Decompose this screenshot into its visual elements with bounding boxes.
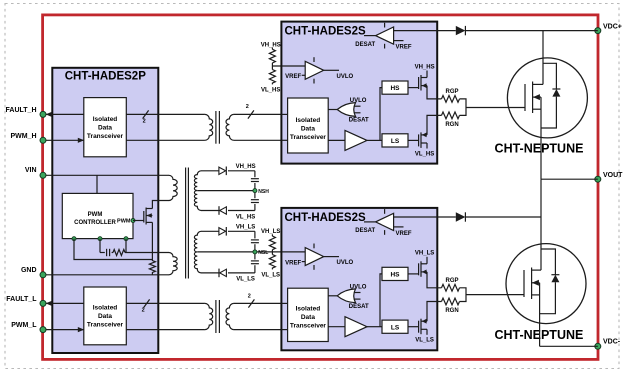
wire VH_HS down to C2: [254, 171, 256, 177]
M2 channel: [531, 268, 533, 300]
svg-text:Data: Data: [301, 126, 315, 133]
T3 primary winding W1: [169, 175, 177, 200]
buffer A2 (gate drive): [345, 317, 367, 337]
svg-text:Data: Data: [301, 314, 315, 321]
svg-text:Transceiver: Transceiver: [290, 134, 327, 141]
svg-text:NSH: NSH: [258, 189, 269, 195]
secondary-side driver IC CHT-HADES2S (low side): [281, 208, 437, 350]
wire NSL tap into block: [281, 251, 305, 253]
svg-text:VREF: VREF: [285, 74, 301, 80]
wire HS to Q4 gate: [408, 273, 419, 275]
svg-text:RGP: RGP: [445, 278, 458, 284]
wire channel lower into block: [281, 139, 287, 141]
wire UVLO output: [324, 69, 339, 71]
wire D6 to VDC+ rail: [465, 30, 597, 32]
node PWM controller pin B: [98, 237, 102, 241]
wire C5 to VL_LS rail: [254, 265, 256, 273]
transformer T1 core: [215, 111, 217, 144]
T3 secondary winding W3 (high side, center tapped): [194, 171, 201, 211]
diode D5 (body): [552, 89, 560, 97]
wire M2 drain to VOUT rail: [540, 179, 542, 270]
transistor Q5 (VL_LS pull-down): [418, 321, 420, 333]
M2 body diode branch: [541, 249, 555, 275]
svg-text:VREF: VREF: [396, 231, 412, 237]
svg-text:UVLO: UVLO: [337, 74, 354, 80]
svg-text:2: 2: [248, 294, 251, 300]
resistor R3: [269, 70, 275, 84]
wire LS to Q3 gate: [408, 139, 419, 141]
signal transformer T2 secondary: [226, 303, 234, 329]
diode D8: [456, 212, 466, 221]
wire channel upper into block: [281, 113, 287, 115]
arrow FAULT_H out: [46, 112, 52, 117]
wire HS to Q2 gate: [408, 87, 419, 89]
wire G2 output to transceiver: [328, 295, 337, 297]
M1 channel: [532, 82, 534, 114]
node VOUT: [595, 176, 601, 182]
wire T1 to transceiver U4 (upper): [234, 113, 288, 115]
bus slash 2 (right of T2): [248, 299, 254, 307]
wire VIN to PWM controller: [96, 175, 98, 193]
M2 source stub: [532, 294, 540, 296]
svg-text:2: 2: [246, 104, 249, 110]
wire Q4 drain to VH_LS: [426, 257, 428, 264]
wire G2 input DESAT: [355, 298, 361, 300]
wire G1 input DESAT: [355, 112, 361, 114]
comparator U7 (UVLO): [305, 61, 324, 79]
diode D3: [219, 228, 226, 235]
node PWM controller pin A: [72, 237, 76, 241]
wire gate feed to M2: [466, 294, 524, 296]
resistor RGN: [442, 112, 460, 119]
T3 secondary winding W4 (low side, center tapped): [194, 231, 201, 273]
wire W4 bottom to diode D4: [201, 272, 219, 274]
wire UVLO output: [324, 256, 339, 258]
comparator U8 (DESAT): [376, 213, 394, 230]
svg-text:UVLO: UVLO: [350, 98, 367, 104]
wire VDC- rail: [540, 345, 598, 347]
wire A2 output node: [367, 326, 382, 328]
wire T1 to transceiver U4 (lower): [234, 139, 288, 141]
svg-text:VH_HS: VH_HS: [236, 164, 256, 170]
capacitor C5: [251, 260, 259, 262]
svg-text:FAULT_L: FAULT_L: [6, 296, 37, 303]
wire Q2 drain to VH_HS: [426, 71, 428, 78]
transistor Q1 (switch): [143, 211, 145, 223]
svg-text:UVLO: UVLO: [350, 285, 367, 291]
svg-text:NSL: NSL: [258, 250, 268, 256]
svg-text:Data: Data: [98, 125, 112, 132]
arrow FAULT_L out: [46, 301, 52, 306]
svg-text:VH_LS: VH_LS: [236, 225, 255, 231]
svg-text:VDC+: VDC+: [603, 24, 622, 31]
svg-text:HS: HS: [390, 272, 400, 279]
svg-text:CHT-HADES2P: CHT-HADES2P: [65, 71, 146, 83]
svg-text:Isolated: Isolated: [93, 305, 118, 312]
svg-text:VH_LS: VH_LS: [261, 229, 280, 235]
svg-text:HS: HS: [390, 85, 400, 92]
wire transceiver U2 to transformer T2 (upper): [126, 302, 205, 304]
svg-text:DESAT: DESAT: [355, 42, 375, 48]
wire to HS input: [380, 88, 382, 141]
wire T2 to transceiver U5 (lower): [234, 329, 288, 331]
wire VOUT rail: [541, 178, 598, 180]
wire T2 to transceiver U5 (upper): [234, 302, 288, 304]
node PWM_H: [40, 137, 46, 143]
diode D1: [219, 167, 226, 174]
wire C3 to VL_HS rail: [254, 204, 256, 211]
svg-text:VREF: VREF: [396, 45, 412, 51]
wire GND rail: [46, 274, 169, 276]
HS driver box: [382, 81, 408, 94]
primary-side driver IC CHT-HADES2P: [52, 68, 158, 353]
wire D4 to VL_LS rail: [228, 272, 255, 274]
wire VH_LS down to C4: [254, 231, 256, 238]
wire Q1 source to sense resistor: [151, 222, 153, 259]
diode D6: [456, 26, 466, 35]
T3 core: [185, 168, 187, 279]
svg-text:CHT-NEPTUNE: CHT-NEPTUNE: [494, 328, 583, 342]
wire DESAT output stub: [364, 221, 376, 223]
comparator U6 (DESAT): [376, 27, 394, 44]
wire W3 bottom to diode D2: [201, 210, 219, 212]
svg-text:VL_LS: VL_LS: [415, 338, 434, 344]
wire A1 output node: [367, 139, 382, 141]
wire VREF stub (DESAT comparator): [394, 40, 404, 42]
resistor R2: [271, 48, 273, 50]
secondary-side driver IC CHT-HADES2S (high side): [281, 22, 437, 164]
wire VREF stub (UVLO comparator): [302, 261, 306, 263]
wire G1 output to transceiver: [328, 109, 337, 111]
capacitor C3: [251, 199, 259, 201]
wire PWM_L: [46, 329, 84, 331]
wire pin A to sense node: [74, 239, 152, 260]
wire HADES2S to D6: [437, 30, 456, 32]
svg-text:VL_HS: VL_HS: [415, 151, 434, 157]
wire Q5 source to VL_LS: [426, 329, 428, 335]
wire channel lower into block: [281, 329, 287, 331]
wire D8 to M2 drain node: [465, 216, 541, 218]
svg-text:Transceiver: Transceiver: [87, 322, 124, 329]
wire LS to Q5 gate: [408, 326, 419, 328]
wire DESAT output stub: [364, 35, 376, 37]
wire PWM to gate of Q1: [133, 220, 144, 222]
wire M1 source to VOUT: [540, 97, 542, 179]
signal transformer T2 primary: [205, 303, 213, 329]
wire Q5 drain to RGN: [427, 302, 442, 322]
M2 drain stub: [532, 269, 541, 271]
svg-text:Data: Data: [98, 313, 112, 320]
resistor R1: [113, 250, 125, 256]
node VDC+: [595, 28, 601, 34]
svg-text:DESAT: DESAT: [349, 118, 369, 124]
M1 source stub: [533, 108, 541, 110]
M1 body diode branch: [543, 63, 556, 89]
svg-text:VDC-: VDC-: [603, 338, 621, 345]
wire gate feed to M1: [466, 107, 525, 109]
wire divider tap: [271, 63, 273, 70]
wire Rs to GND rail: [151, 274, 153, 275]
isolated data transceiver U1 (high side channel): [84, 98, 127, 157]
wire Q1 drain to primary W1: [152, 201, 169, 209]
svg-text:VH_HS: VH_HS: [261, 42, 281, 48]
svg-text:2: 2: [143, 119, 146, 125]
svg-text:FAULT_H: FAULT_H: [6, 107, 37, 114]
buffer A1 (gate drive): [345, 130, 367, 150]
wire RC net to primary W2: [100, 252, 105, 254]
svg-text:VH_LS: VH_LS: [415, 251, 434, 257]
wire M2 source to VDC-: [539, 283, 541, 347]
svg-text:Isolated: Isolated: [296, 306, 321, 313]
svg-text:CHT-HADES2S: CHT-HADES2S: [285, 212, 366, 224]
svg-text:LS: LS: [391, 324, 400, 331]
wire to HS input: [380, 274, 382, 327]
wire C4 to NSL: [254, 244, 256, 259]
svg-text:VIN: VIN: [25, 167, 37, 174]
wire RGP/RGN join: [460, 288, 467, 302]
wire RGP/RGN join: [460, 99, 467, 116]
node FAULT_L: [40, 300, 46, 306]
svg-text:PWM: PWM: [88, 212, 103, 218]
wire Q4 source to RGP: [427, 272, 442, 288]
wire divider tap into block: [281, 65, 305, 67]
wire DESAT sense (to right edge): [394, 216, 438, 218]
wire Q3 source to VL_HS: [426, 143, 428, 149]
wire channel upper into block: [281, 302, 287, 304]
svg-text:VREF: VREF: [285, 260, 301, 266]
HS driver box: [382, 267, 408, 280]
wire pin B down: [99, 239, 101, 253]
node NSH: [253, 189, 257, 193]
or-gate G2 (UVLO+DESAT): [337, 289, 355, 303]
wire Q3 drain to RGN: [427, 115, 442, 134]
arrow PWM_L in: [78, 327, 84, 332]
or-gate G1 (UVLO+DESAT): [337, 103, 355, 117]
resistor R4: [271, 234, 273, 236]
resistor Rs (current sense): [149, 260, 155, 274]
bus slash 2 (right of T1): [248, 110, 254, 118]
power module M2 CHT-NEPTUNE (low side): [506, 244, 586, 324]
wire D1 to VH_HS rail: [228, 170, 255, 172]
isolated data transceiver U4: [288, 98, 329, 153]
wire HADES2S to D8: [437, 216, 456, 218]
PWM controller U3: [62, 193, 133, 238]
transistor Q3 (VL_HS pull-down): [418, 134, 420, 146]
svg-text:Isolated: Isolated: [296, 117, 321, 124]
wire transceiver U1 to transformer T1 (lower): [126, 139, 205, 141]
wire M1 drain to VDC+: [542, 31, 544, 85]
LS driver box: [382, 134, 408, 147]
svg-text:DESAT: DESAT: [349, 304, 369, 310]
bus slash 2 (left of T1): [143, 110, 149, 118]
svg-text:LS: LS: [391, 138, 400, 145]
signal transformer T1 secondary: [226, 114, 234, 140]
svg-text:CHT-NEPTUNE: CHT-NEPTUNE: [495, 142, 584, 156]
svg-text:RGN: RGN: [445, 308, 458, 314]
M1 drain stub: [533, 83, 543, 85]
capacitor C2: [251, 178, 259, 180]
resistor RGP: [442, 96, 460, 103]
M1 gate: [524, 84, 526, 111]
svg-text:PWM_L: PWM_L: [11, 322, 37, 329]
svg-text:VOUT: VOUT: [603, 172, 623, 179]
svg-text:VH_HS: VH_HS: [415, 64, 435, 70]
wire W4 top to diode D3: [201, 230, 219, 232]
wire G2 input UVLO: [355, 292, 361, 294]
resistor RGN (low side): [442, 298, 460, 305]
svg-text:GND: GND: [21, 267, 37, 274]
isolated data transceiver U5: [288, 288, 329, 341]
node GND: [40, 272, 46, 278]
wire pin C down: [125, 239, 127, 253]
wire DESAT sense (to right edge): [394, 30, 438, 32]
comparator U9 (UVLO): [305, 248, 324, 266]
node PWM pin: [131, 219, 135, 223]
wire W3 top to diode D1: [201, 170, 219, 172]
wire VREF stub (UVLO comparator): [302, 74, 306, 76]
wire FAULT_L: [46, 302, 84, 304]
wire W3 center tap to NSH: [197, 190, 255, 192]
transformer T2 core: [215, 300, 217, 333]
signal transformer T1 primary: [205, 114, 213, 140]
M2 gate: [523, 270, 525, 297]
isolated data transceiver U2 (low side channel): [84, 287, 127, 345]
node PWM controller pin C: [124, 237, 128, 241]
capacitor C4: [251, 239, 259, 241]
wire Q2 source to RGP: [427, 86, 442, 99]
svg-text:UVLO: UVLO: [337, 260, 354, 266]
svg-text:Transceiver: Transceiver: [290, 323, 327, 330]
svg-text:RGP: RGP: [445, 89, 458, 95]
svg-text:Transceiver: Transceiver: [87, 133, 124, 140]
svg-text:VL_HS: VL_HS: [261, 88, 280, 94]
power module M1 CHT-NEPTUNE (high side): [507, 58, 587, 138]
wire transceiver to buffer A1: [328, 139, 345, 141]
wire D3 to VH_LS rail: [228, 230, 255, 232]
svg-text:2: 2: [142, 308, 145, 314]
node VIN: [40, 172, 46, 178]
LS driver box: [382, 320, 408, 333]
wire G1 input UVLO: [355, 105, 361, 107]
wire D2 to VL_HS rail: [228, 210, 255, 212]
wire transceiver U1 to transformer T1 (upper): [126, 113, 205, 115]
wire PWM_H: [46, 139, 84, 141]
svg-text:VL_HS: VL_HS: [236, 214, 255, 220]
diode D2: [220, 207, 227, 214]
svg-text:Isolated: Isolated: [93, 116, 118, 123]
transistor Q4 (VH_LS pull-up): [418, 263, 420, 275]
wire C2 to NSH: [254, 183, 256, 198]
svg-text:RGN: RGN: [445, 122, 458, 128]
svg-text:CHT-HADES2S: CHT-HADES2S: [285, 25, 366, 37]
resistor R5: [269, 255, 275, 269]
diode D4: [220, 269, 227, 276]
diode D7 (body): [551, 275, 559, 283]
svg-text:PWM_H: PWM_H: [10, 133, 36, 140]
arrow PWM_H in: [78, 138, 84, 143]
svg-text:PWM: PWM: [117, 219, 131, 225]
node FAULT_H: [40, 111, 46, 117]
node VDC-: [595, 343, 601, 349]
wire transceiver to buffer A2: [328, 326, 345, 328]
node NSL: [253, 250, 257, 254]
T3 primary winding W2: [169, 253, 177, 275]
svg-text:CONTROLLER: CONTROLLER: [74, 220, 116, 226]
transistor Q2 (VH_HS pull-up): [418, 77, 420, 89]
wire FAULT_H: [46, 113, 84, 115]
capacitor C1: [106, 249, 108, 256]
node PWM_L: [40, 327, 46, 333]
wire VIN rail: [46, 174, 169, 176]
svg-text:VL_LS: VL_LS: [236, 277, 255, 283]
wire VREF stub (DESAT comparator): [394, 226, 404, 228]
wire W4 center tap through NSL to divider: [197, 251, 305, 253]
svg-text:DESAT: DESAT: [355, 228, 375, 234]
bus slash 2 (left of T2): [144, 299, 150, 307]
wire transceiver U2 to transformer T2 (lower): [126, 329, 205, 331]
svg-text:VL_LS: VL_LS: [261, 272, 280, 278]
resistor RGP (low side): [442, 284, 460, 291]
M2 body stub with arrow: [532, 282, 540, 284]
M1 body stub with arrow: [533, 96, 541, 98]
